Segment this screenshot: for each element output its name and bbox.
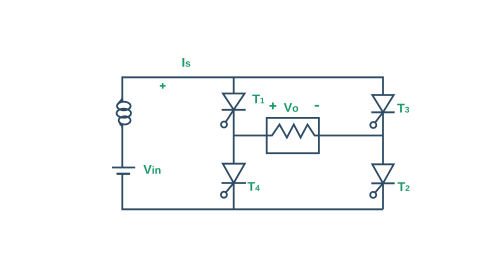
resistor R (load) zigzag — [267, 125, 319, 138]
label Vo — [284, 103, 298, 112]
label + (Vo polarity) — [270, 103, 277, 110]
thyristor T1 — [221, 94, 246, 128]
wire right branch bottom — [382, 183, 384, 209]
thyristor T2 — [370, 164, 395, 198]
wire left branch middle — [121, 124, 123, 167]
label Vin — [143, 165, 160, 174]
label T2 — [398, 182, 410, 191]
wire top bus (Is) — [122, 76, 383, 78]
wire left branch top — [121, 76, 123, 101]
battery Vin positive plate — [112, 167, 135, 169]
label - (Vo polarity) — [315, 105, 319, 107]
wire left branch bottom — [121, 174, 123, 210]
wire bottom bus — [122, 208, 383, 210]
wire right branch top — [382, 76, 384, 95]
wire middle branch middle — [233, 110, 235, 164]
label T1 — [252, 95, 264, 104]
label + (source polarity) — [160, 83, 166, 89]
wire load left — [234, 135, 267, 137]
load box — [267, 118, 319, 153]
inductor (source coil) — [117, 98, 131, 128]
label T4 — [248, 182, 260, 191]
wire right branch middle — [382, 112, 384, 164]
label T3 — [397, 104, 409, 113]
thyristor T3 — [370, 95, 394, 128]
wire middle branch top — [233, 77, 235, 93]
wire load right — [319, 135, 383, 137]
battery Vin negative plate — [117, 173, 131, 175]
thyristor T4 — [221, 164, 246, 198]
label Is — [182, 58, 190, 67]
wire middle branch bottom — [233, 183, 235, 209]
